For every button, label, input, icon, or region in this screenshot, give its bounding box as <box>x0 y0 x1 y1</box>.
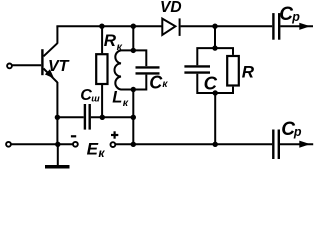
terminal Ek plus <box>111 142 116 147</box>
plus sign <box>111 131 118 138</box>
svg-text:R: R <box>104 31 117 50</box>
svg-text:р: р <box>291 10 300 24</box>
input terminal (bottom left) <box>6 142 11 147</box>
resistor R <box>215 48 239 93</box>
capacitor Cp (bottom) <box>273 130 313 160</box>
svg-text:VD: VD <box>160 0 182 16</box>
svg-text:р: р <box>293 125 302 139</box>
node Rk-Csh <box>100 115 105 120</box>
wire CR down <box>214 93 216 144</box>
resistor Rk <box>96 26 107 117</box>
input terminal (base) <box>7 64 12 69</box>
wire LC down <box>132 90 134 145</box>
wire emitter down <box>56 82 58 144</box>
inductor Lk <box>115 50 134 89</box>
capacitor Ck <box>133 50 159 89</box>
node bottom rail CR <box>213 142 218 147</box>
node LC bottom <box>131 87 136 92</box>
wire collector <box>56 26 58 43</box>
svg-text:E: E <box>87 140 99 159</box>
wire top rail left <box>56 25 161 27</box>
svg-text:к: к <box>123 97 129 109</box>
svg-text:C: C <box>149 73 163 93</box>
wire base <box>12 64 41 66</box>
node Lk-Csh <box>131 115 136 120</box>
node bottom-Lk <box>131 142 136 147</box>
node LC top <box>131 48 136 53</box>
svg-text:VT: VT <box>48 58 70 75</box>
ground <box>45 144 70 167</box>
node top-Lk <box>131 24 136 29</box>
node ground <box>55 142 60 147</box>
wire CR top lead <box>214 26 216 48</box>
svg-text:R: R <box>242 62 255 81</box>
svg-text:L: L <box>112 89 122 107</box>
capacitor Cp (top) <box>273 13 313 40</box>
node CR bottom <box>213 90 218 95</box>
node CR top <box>212 45 217 50</box>
wire bottom rail right <box>116 143 273 145</box>
wire bottom rail left <box>11 143 73 145</box>
svg-text:C: C <box>204 72 218 93</box>
svg-text:ш: ш <box>91 94 100 105</box>
diode VD <box>162 18 179 36</box>
capacitor Csh <box>57 104 133 130</box>
node emitter-Csh <box>55 115 60 120</box>
transistor VT <box>41 43 57 82</box>
svg-text:к: к <box>98 146 105 160</box>
node top-Rk <box>99 24 104 29</box>
minus sign <box>71 135 76 137</box>
capacitor C <box>184 48 215 93</box>
svg-text:к: к <box>117 41 123 53</box>
wire LC top lead <box>132 26 134 50</box>
terminal Ek minus <box>73 142 78 147</box>
node top rail CR <box>212 24 217 29</box>
svg-text:C: C <box>279 4 293 25</box>
wire top rail right <box>181 25 273 27</box>
